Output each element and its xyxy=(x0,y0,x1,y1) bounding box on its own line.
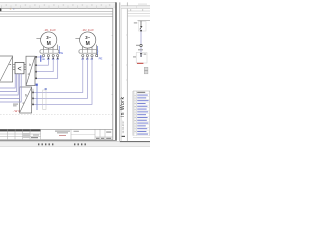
right cells h-line xyxy=(95,136,113,138)
terminal label left xyxy=(136,45,139,46)
svg-text:3~: 3~ xyxy=(85,35,90,40)
wire F1 out 3 xyxy=(0,74,18,95)
svg-text:h: h xyxy=(29,63,31,67)
table row lines xyxy=(133,94,150,136)
main frame row ticks xyxy=(112,36,113,95)
right cells v-lines xyxy=(71,129,105,139)
svg-text:-M1 4kW: -M1 4kW xyxy=(44,28,57,32)
ruler bottom line xyxy=(0,7,113,9)
motor M2 left stub xyxy=(75,38,79,40)
page 2 ruler tick xyxy=(136,6,138,9)
wire M1 U xyxy=(37,56,44,58)
page 2 ruler bottom line xyxy=(121,8,150,10)
terminal circles M2 xyxy=(82,55,98,57)
table right border xyxy=(149,91,151,136)
title block xyxy=(0,129,113,139)
frame header line 1 xyxy=(0,11,113,13)
wire F1 out 5 xyxy=(0,74,21,102)
title centre text xyxy=(55,131,70,134)
lower contact ticks xyxy=(140,53,142,54)
motor M2 xyxy=(80,32,96,48)
motor M2 pin stubs xyxy=(83,47,92,50)
table header text xyxy=(137,92,145,93)
wire M2 U xyxy=(33,57,83,93)
table outer bottom line xyxy=(133,136,150,138)
wire F1 out 2 xyxy=(0,74,17,92)
margin dark mark xyxy=(122,136,125,137)
margin row ticks xyxy=(126,35,127,80)
table col line 1 xyxy=(133,91,135,136)
svg-text:-M2 4kW: -M2 4kW xyxy=(82,28,95,32)
page 2 header line 1 xyxy=(127,10,150,12)
breaker box Q1 xyxy=(0,56,13,82)
breaker box Q2 (h) xyxy=(26,56,35,85)
wire M2 V xyxy=(33,57,87,99)
page 2 margin line xyxy=(126,2,128,141)
motor M1 pin stubs xyxy=(44,47,53,50)
page 2 ruler numbers xyxy=(130,9,131,10)
frame header line 3 xyxy=(0,16,113,18)
ruler corner dark mark xyxy=(0,8,1,11)
page 1 bottom edge xyxy=(0,139,117,141)
revision grid v-lines xyxy=(8,129,41,139)
page 1 right inner frame xyxy=(112,8,114,140)
terminal strip ticks xyxy=(44,50,53,54)
page 2 bottom edge xyxy=(120,141,150,143)
frame header line 2 xyxy=(0,13,113,15)
terminal side label xyxy=(133,56,136,57)
wire top arrowheads M2 xyxy=(82,58,93,59)
contact ticks xyxy=(140,26,142,29)
junction dot xyxy=(140,30,142,31)
page 2 fuse label xyxy=(134,22,137,23)
page 2 inner left line xyxy=(120,6,122,141)
connection arrows box3 right edge xyxy=(35,56,37,79)
box3 edge bus line xyxy=(35,57,37,79)
svg-text:M: M xyxy=(86,41,90,47)
blue tick mark xyxy=(13,8,14,11)
row number marks xyxy=(134,95,136,132)
connection arrows box4 right edge xyxy=(32,92,34,106)
orange tick mark xyxy=(10,8,11,11)
status icons group 1 xyxy=(38,143,53,145)
table top line xyxy=(133,90,150,92)
motor M1 PE stub xyxy=(57,45,59,50)
mid label grey xyxy=(138,49,143,50)
terminal circles M1 xyxy=(43,55,59,57)
status bar xyxy=(0,141,150,146)
title block top line xyxy=(0,128,113,130)
fuse faint box xyxy=(138,22,146,32)
svg-text:M: M xyxy=(47,41,51,47)
wire M2 W xyxy=(33,57,92,105)
content bottom faint line xyxy=(0,113,113,115)
svg-text:in Work: in Work xyxy=(120,97,126,117)
motor M2 terminal strip xyxy=(79,50,98,54)
undervoltage box F1 xyxy=(15,62,24,73)
shield rectangle xyxy=(43,90,46,109)
svg-text:PE: PE xyxy=(59,51,63,55)
status icons group 2 xyxy=(74,143,86,145)
wire M1 V xyxy=(37,57,49,65)
small text left-bottom cell xyxy=(31,137,38,138)
svg-text:3~: 3~ xyxy=(46,35,51,40)
terminal strip ticks M2 xyxy=(83,50,92,54)
page 2 header line 3 xyxy=(127,15,150,17)
shield blue tick xyxy=(45,88,47,90)
page 2 feed line xyxy=(138,20,151,22)
table left border xyxy=(132,91,134,136)
terminal box faint xyxy=(136,53,147,63)
page 2 wire (blue) xyxy=(140,29,142,57)
motor M1 left stub xyxy=(36,38,40,40)
page 2 ruler band xyxy=(121,6,150,8)
cable marker M2 (blue) xyxy=(36,85,38,111)
ruler ticks xyxy=(2,5,106,8)
motor M1 terminal strip xyxy=(40,50,59,54)
revision grey cell xyxy=(23,133,30,138)
wire F1 out 1 xyxy=(0,74,15,88)
red label page2 xyxy=(137,63,143,64)
grey widget buttons xyxy=(144,67,148,74)
page 2 terminal xyxy=(140,44,142,46)
svg-text:PE: PE xyxy=(99,57,103,61)
PE jumper M1 (blue) xyxy=(58,46,60,54)
page 1 right edge xyxy=(115,2,117,140)
lower contact label right xyxy=(144,54,147,55)
ruler column numbers xyxy=(6,4,111,6)
revision header dark band xyxy=(0,130,41,132)
right cell texts xyxy=(96,132,111,139)
svg-text:h: h xyxy=(25,94,27,98)
breaker box Q3 (h) xyxy=(20,87,32,113)
wire top arrowheads M1 xyxy=(48,58,59,59)
wire F1 out 4 xyxy=(0,74,20,99)
PE jumper M2 (blue) xyxy=(97,46,99,57)
page 2 fuse symbol xyxy=(140,21,142,26)
page 1 top edge xyxy=(0,1,116,3)
page 1 column ruler band xyxy=(0,3,116,9)
svg-text:12.04.2017: 12.04.2017 xyxy=(121,120,125,134)
viewer page label faint xyxy=(138,4,147,5)
page 2 header line 2 xyxy=(127,13,150,15)
svg-text:<: < xyxy=(17,66,21,73)
wire number labels M1 (blue) xyxy=(42,59,59,60)
wire M1 W xyxy=(37,57,54,72)
cable marker M1 (blue) xyxy=(40,55,41,62)
page 2 left edge xyxy=(119,2,121,141)
cable arrow M2 (blue) xyxy=(36,84,38,86)
link rows (blue) xyxy=(137,95,148,135)
wire number labels M2 (blue) xyxy=(81,59,93,60)
wire M1 PE run xyxy=(37,57,58,79)
motor M1 xyxy=(41,32,57,48)
motor M2 PE stub xyxy=(95,45,97,55)
svg-text:-W1: -W1 xyxy=(13,109,20,113)
box4 edge bus line xyxy=(32,89,34,105)
small text mid cell xyxy=(74,130,79,133)
page 2 top edge xyxy=(121,5,150,7)
F1 right stubs xyxy=(24,65,26,70)
table col line 2 xyxy=(136,91,138,136)
links table xyxy=(133,91,150,136)
cable label grey xyxy=(13,104,18,107)
title block bottom line xyxy=(0,139,113,141)
F1 left stubs xyxy=(13,65,15,70)
revision grid h-lines xyxy=(0,133,41,135)
